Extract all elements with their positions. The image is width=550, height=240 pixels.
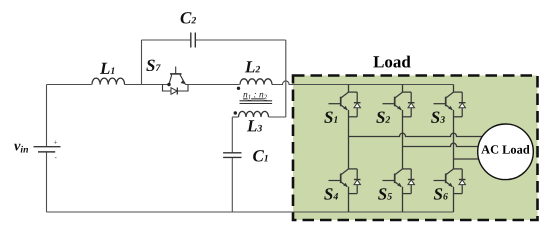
svg-text:Load: Load: [373, 52, 411, 71]
svg-text:C2: C2: [180, 8, 196, 27]
svg-text:n1 : n2: n1 : n2: [243, 90, 268, 101]
svg-text:vin: vin: [14, 138, 29, 155]
svg-text:AC Load: AC Load: [481, 143, 530, 157]
svg-text:-: -: [55, 154, 58, 162]
svg-text:L2: L2: [244, 57, 260, 76]
svg-text:L1: L1: [99, 59, 115, 78]
svg-text:S7: S7: [146, 56, 161, 75]
svg-text:C1: C1: [252, 146, 268, 165]
svg-text:+: +: [54, 139, 58, 147]
svg-text:L3: L3: [246, 116, 262, 135]
